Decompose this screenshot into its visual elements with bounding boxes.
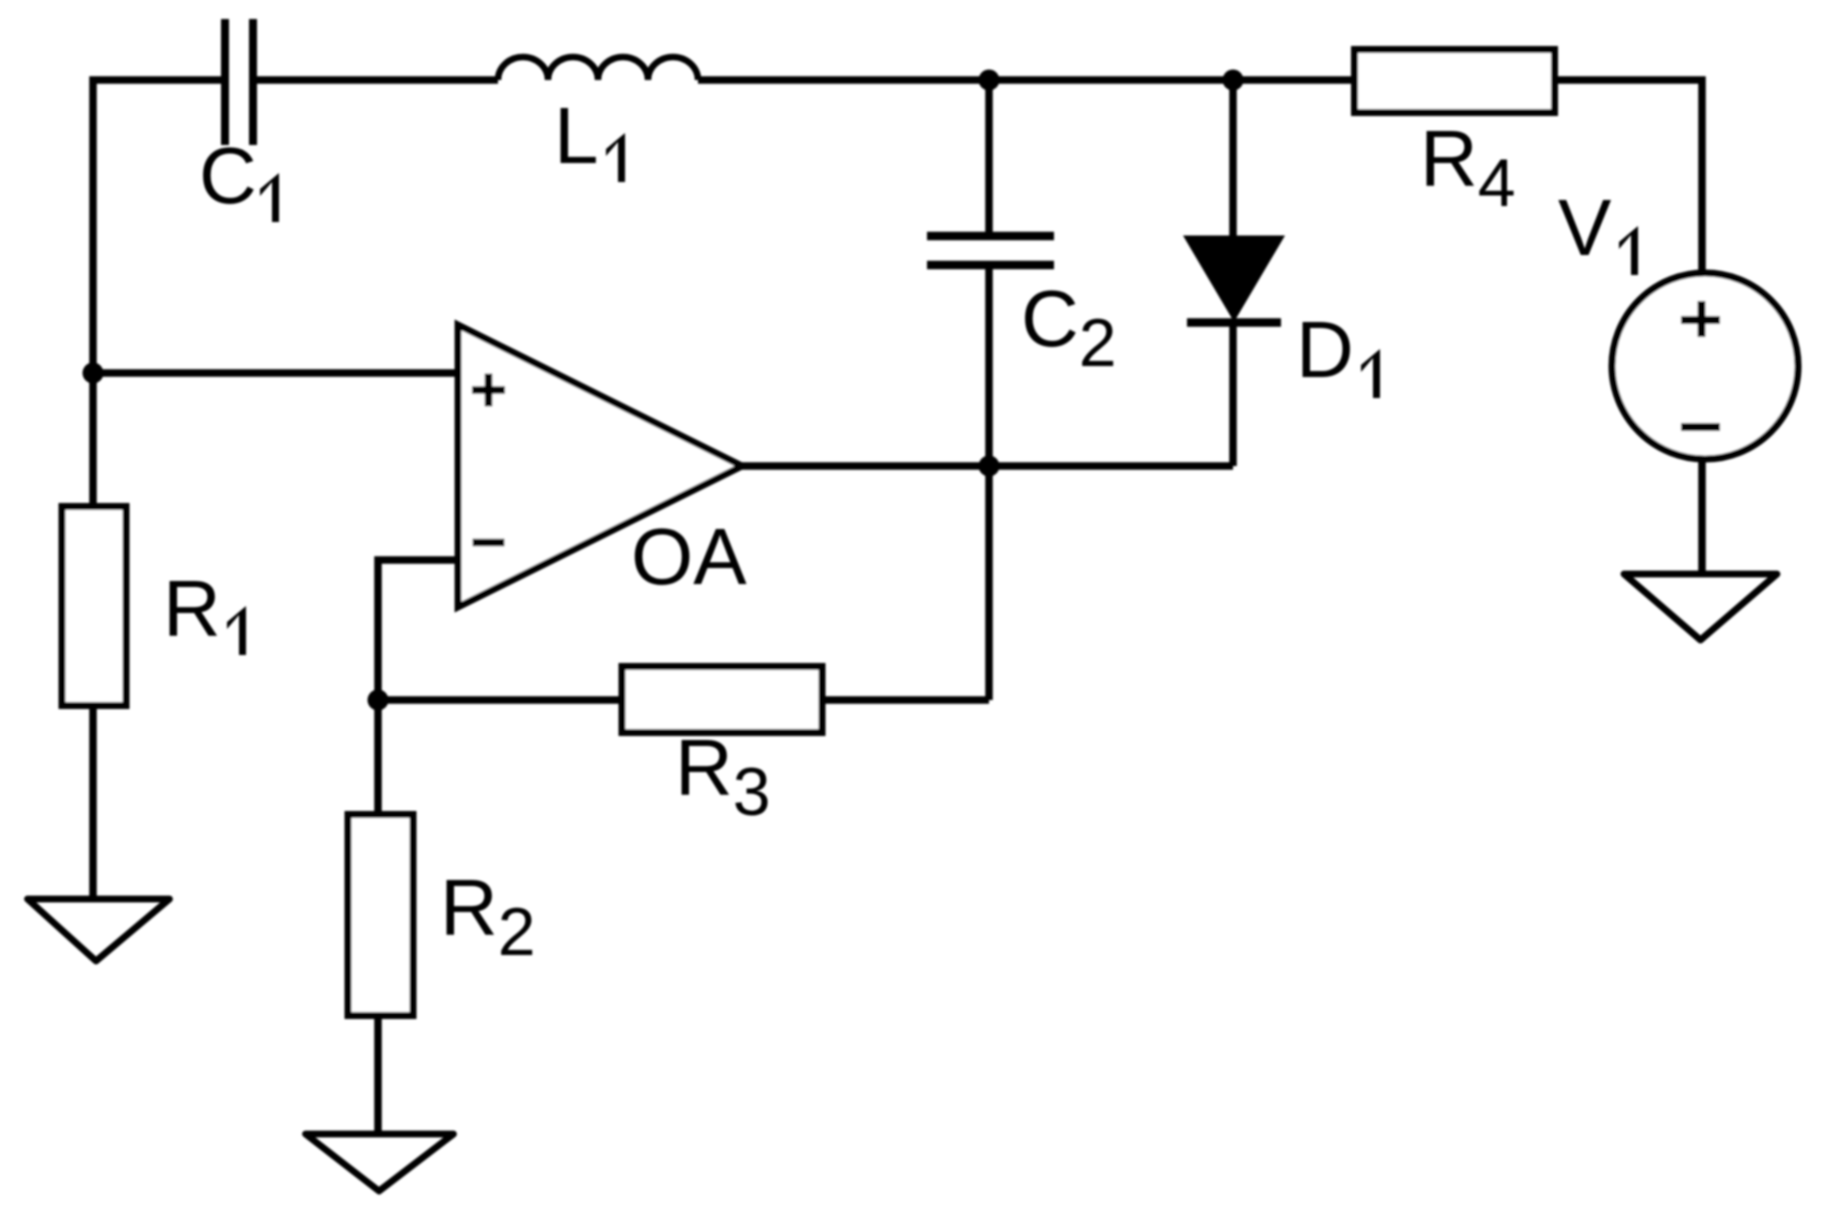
svg-text:C: C <box>199 131 257 220</box>
svg-text:L: L <box>554 91 599 180</box>
svg-text:D: D <box>1296 305 1354 394</box>
svg-text:V: V <box>1558 183 1612 272</box>
svg-text:OA: OA <box>631 512 747 601</box>
svg-text:R: R <box>163 564 221 653</box>
